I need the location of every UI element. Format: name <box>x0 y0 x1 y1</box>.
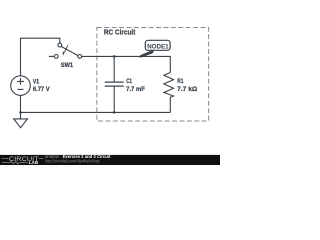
svg-text:NODE1: NODE1 <box>147 43 169 50</box>
terminal common <box>78 55 82 59</box>
node: capacitor branch junction dot <box>113 55 116 58</box>
svg-text:7.7 kΩ: 7.7 kΩ <box>177 86 198 93</box>
wire: V1 bottom to ground <box>20 95 22 118</box>
capacitor C1 <box>105 82 124 86</box>
wire: bottom rail <box>21 111 171 113</box>
voltage source V1 <box>11 76 31 96</box>
svg-text:SW1: SW1 <box>61 62 74 69</box>
lever <box>62 47 79 56</box>
footer logo resistor zigzag <box>2 162 28 164</box>
resistor R1 <box>164 73 174 113</box>
svg-text:V1: V1 <box>33 79 39 86</box>
wire: V1 top to switch corner <box>21 38 60 76</box>
node: ground junction dot <box>19 111 22 114</box>
node flag NODE1 <box>140 40 171 57</box>
svg-text:7.7 mF: 7.7 mF <box>126 86 145 93</box>
footer bar <box>0 155 220 165</box>
svg-text:C1: C1 <box>126 78 132 85</box>
svg-text:http://circuitlab.com/c/lpnkta: http://circuitlab.com/c/lpnktadv5nsp <box>45 158 100 163</box>
node: capacitor bottom junction dot <box>113 111 116 114</box>
svg-text:LAB: LAB <box>29 160 39 165</box>
svg-text:RC Circuit: RC Circuit <box>104 28 136 37</box>
terminal open <box>54 55 58 59</box>
svg-text:6.77 V: 6.77 V <box>33 86 50 93</box>
terminal top <box>58 43 62 47</box>
actuator arrow <box>64 45 67 52</box>
switch SW1 <box>49 43 82 58</box>
svg-text:R1: R1 <box>177 78 183 85</box>
ground <box>14 119 28 128</box>
annotation box: RC Circuit dashed rectangle <box>97 28 209 122</box>
wire: switch common to R1 top corner <box>82 56 171 72</box>
footer logo wire stubs <box>2 158 44 160</box>
wire: capacitor branch top <box>113 56 115 81</box>
wire stub of open throw <box>49 55 54 57</box>
wire: capacitor branch bottom <box>113 87 115 113</box>
